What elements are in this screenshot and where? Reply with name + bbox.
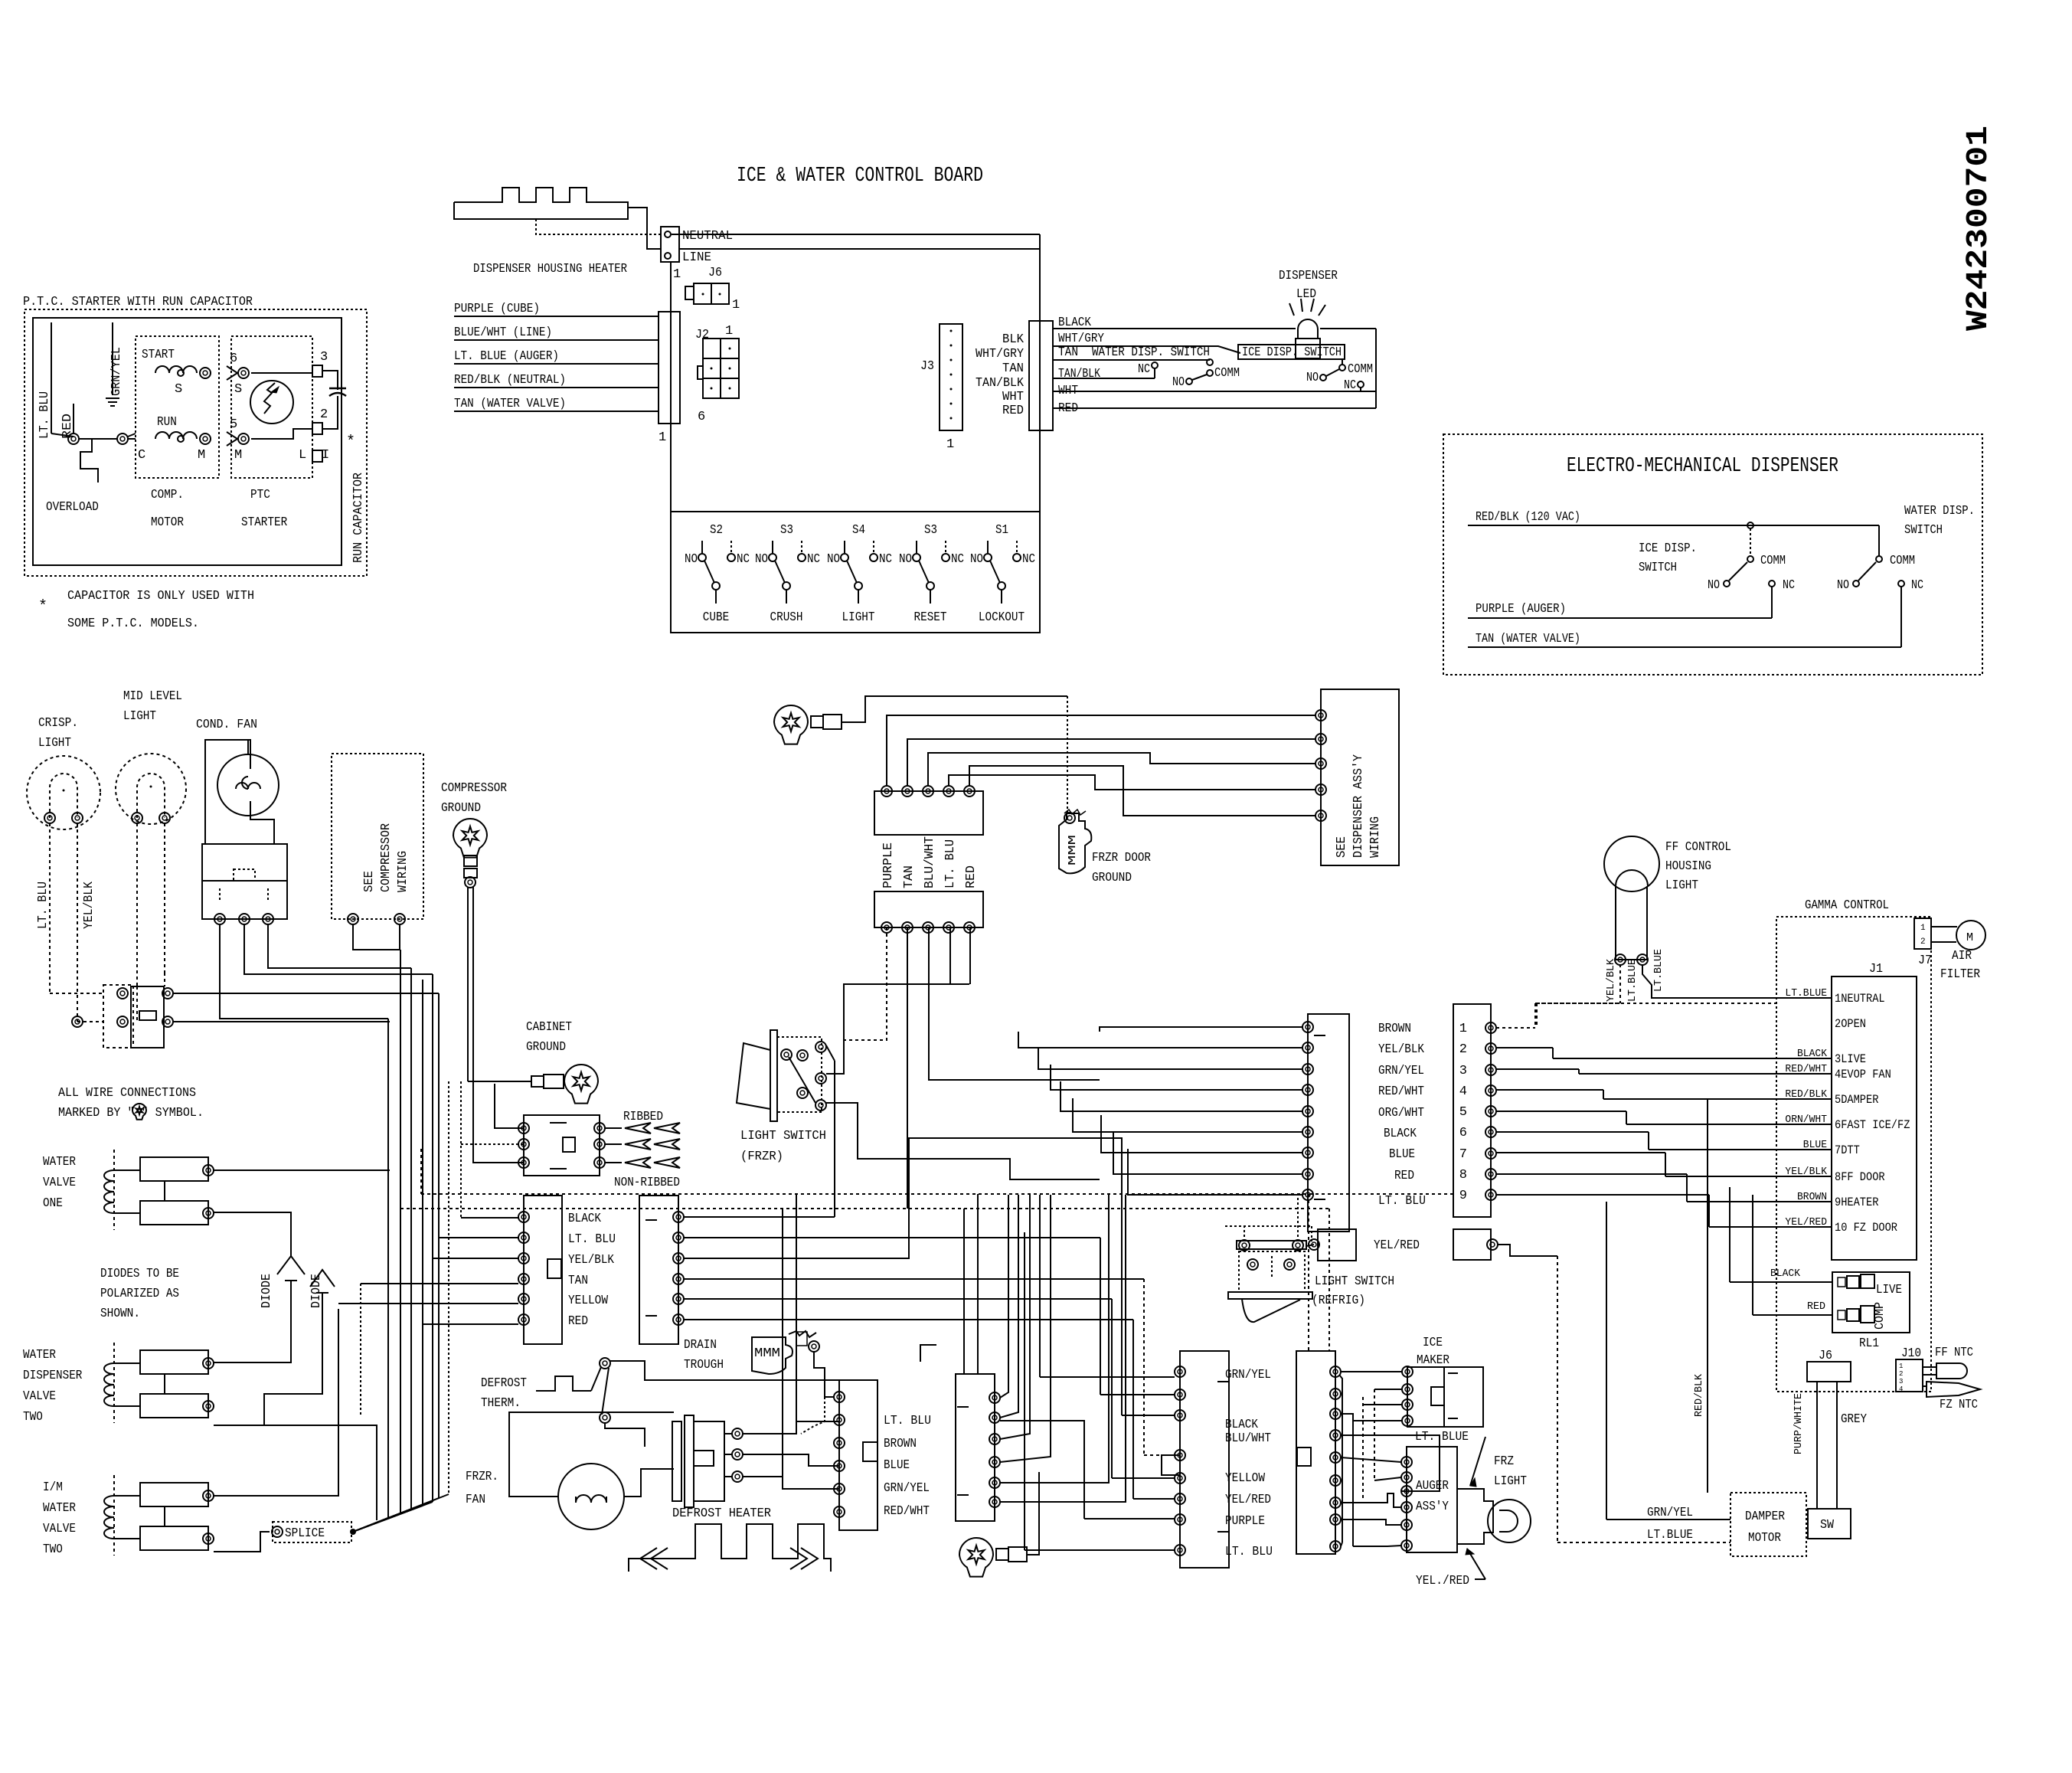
wire C2 tan right	[684, 1278, 1144, 1280]
svg-text:J7: J7	[1918, 954, 1932, 968]
light switch REFRIG plate	[1237, 1241, 1306, 1249]
svg-text:10 FZ DOOR: 10 FZ DOOR	[1835, 1221, 1897, 1235]
SW box	[1808, 1509, 1851, 1539]
svg-text:TAN/BLK: TAN/BLK	[1058, 367, 1101, 381]
svg-text:COMP: COMP	[1873, 1302, 1887, 1330]
splice fan wire 5	[353, 1502, 433, 1532]
switch S3 (CRUSH)	[755, 523, 820, 625]
svg-text:FRZR DOOR: FRZR DOOR	[1092, 851, 1151, 865]
wire RL1 black from lattice	[1730, 1281, 1776, 1283]
svg-text:1: 1	[1459, 1022, 1467, 1036]
wire block2 t5 down	[969, 927, 971, 984]
PTC outer dashed box	[25, 309, 367, 576]
compressor ground wire down	[467, 887, 469, 974]
svg-text:RED: RED	[1807, 1300, 1825, 1313]
svg-text:NC: NC	[1022, 552, 1035, 567]
svg-text:RED/BLK (120 VAC): RED/BLK (120 VAC)	[1476, 510, 1580, 525]
diode 1 symbol	[277, 1256, 305, 1274]
wire block1 t5 to dispenser box	[969, 766, 1315, 816]
svg-text:TAN: TAN	[902, 865, 917, 888]
svg-text:7: 7	[1459, 1147, 1467, 1162]
svg-text:YEL/BLK: YEL/BLK	[1605, 958, 1617, 1002]
air filter motor	[1956, 921, 1985, 950]
J1 pin 5 DAMPER	[1776, 1088, 1879, 1107]
svg-text:TWO: TWO	[23, 1410, 43, 1425]
splice junction	[350, 1529, 356, 1535]
J1 pin 9 HEATER	[1776, 1191, 1879, 1209]
svg-text:S: S	[175, 382, 182, 397]
svg-text:YEL/BLK: YEL/BLK	[568, 1253, 615, 1268]
MMM wire down	[814, 1352, 835, 1397]
svg-text:RED/WHT: RED/WHT	[884, 1504, 930, 1519]
svg-text:THERM.: THERM.	[481, 1396, 521, 1411]
svg-text:HOUSING: HOUSING	[1665, 859, 1711, 874]
svg-text:BLU/WHT: BLU/WHT	[1225, 1431, 1271, 1446]
1-9 connector C8 body	[1453, 1004, 1491, 1217]
wire run-to-terminal2	[251, 429, 312, 439]
neutral/line terminal block	[661, 227, 679, 262]
svg-text:RUN: RUN	[157, 415, 177, 430]
svg-text:I/M: I/M	[43, 1480, 63, 1495]
wire mid light 1 down	[136, 823, 138, 986]
svg-text:RED: RED	[1394, 1169, 1414, 1183]
wire bundle vertical 5	[432, 974, 433, 1502]
svg-text:TAN (WATER VALVE): TAN (WATER VALVE)	[1476, 632, 1580, 646]
svg-text:NEUTRAL: NEUTRAL	[682, 229, 733, 244]
svg-text:S1: S1	[995, 523, 1008, 538]
wire C2 lt.blu right	[684, 1237, 1100, 1238]
J1 pin 7 DTT	[1776, 1139, 1860, 1157]
svg-text:BLUE: BLUE	[884, 1458, 910, 1473]
wire C8 pin 5 to J1	[1496, 1111, 1776, 1124]
YEL/RED connector small box wires	[1306, 1245, 1314, 1246]
terminal block pins	[214, 914, 225, 924]
svg-text:DRAIN: DRAIN	[684, 1338, 717, 1353]
svg-text:AIR: AIR	[1952, 949, 1972, 963]
wire see-comp t2 to bundle	[399, 924, 400, 950]
J1 pin 10 FZ DOOR	[1776, 1216, 1897, 1235]
connector C6 body	[1296, 1351, 1335, 1554]
svg-text:DISPENSER HOUSING HEATER: DISPENSER HOUSING HEATER	[473, 262, 627, 276]
svg-text:START: START	[142, 348, 175, 362]
svg-text:J3: J3	[920, 359, 934, 374]
svg-text:NC: NC	[1911, 578, 1923, 593]
light switch FRZR body	[777, 1037, 822, 1112]
svg-text:LT.BLUE: LT.BLUE	[1647, 1528, 1693, 1542]
defrost therm wires	[610, 1361, 839, 1380]
splice fan wire 1	[353, 1517, 390, 1532]
svg-text:MMM: MMM	[1067, 835, 1079, 865]
svg-text:VALVE: VALVE	[43, 1176, 76, 1190]
light switch FRZR wedge	[737, 1043, 770, 1109]
wire block2 t2 down	[907, 927, 908, 1209]
svg-text:DISPENSER ASS'Y: DISPENSER ASS'Y	[1351, 754, 1366, 858]
svg-text:1: 1	[732, 298, 740, 312]
svg-text:RIBBED: RIBBED	[623, 1110, 663, 1124]
wire housing light yel/blk down	[1619, 964, 1621, 1003]
svg-text:GAMMA CONTROL: GAMMA CONTROL	[1805, 898, 1889, 913]
svg-text:COMM: COMM	[1348, 362, 1373, 377]
svg-text:LT. BLU: LT. BLU	[1225, 1545, 1273, 1559]
svg-text:NC: NC	[1783, 578, 1795, 593]
wire housing-light horizontal dashed	[1537, 1003, 1620, 1004]
svg-text:1: 1	[725, 324, 733, 339]
svg-text:W242300701: W242300701	[1962, 126, 1996, 331]
run capacitor symbol	[337, 373, 338, 390]
svg-text:6: 6	[230, 352, 237, 366]
svg-text:OVERLOAD: OVERLOAD	[46, 500, 99, 515]
C8 lower box	[1453, 1229, 1491, 1260]
svg-text:LIGHT: LIGHT	[1494, 1474, 1527, 1489]
wire lattice near freezer light switch	[826, 1045, 835, 1061]
svg-text:C: C	[138, 448, 145, 463]
wire C8 pin 3 to J1	[1496, 1069, 1776, 1074]
thermostat dashed box	[103, 985, 133, 1048]
svg-text:5: 5	[1459, 1105, 1467, 1120]
svg-text:WHT/GRY: WHT/GRY	[976, 347, 1024, 361]
wire motor t1 to bundle	[220, 924, 388, 1019]
wires defrost heater to C3	[743, 1421, 839, 1434]
svg-text:SWITCH: SWITCH	[1904, 523, 1943, 538]
svg-text:RED/BLK (NEUTRAL): RED/BLK (NEUTRAL)	[454, 373, 566, 388]
svg-text:RL1: RL1	[1859, 1336, 1879, 1351]
board outline	[671, 249, 1040, 633]
freezer door ground symbol	[1059, 813, 1091, 873]
door ground lug (top)	[774, 705, 808, 744]
svg-text:BROWN: BROWN	[1378, 1022, 1411, 1036]
svg-text:DEFROST: DEFROST	[481, 1376, 527, 1391]
svg-text:PURPLE: PURPLE	[881, 842, 896, 888]
overload switch wires	[68, 433, 79, 444]
wire C2 yel/blk right	[684, 1138, 1122, 1258]
svg-text:LOCKOUT: LOCKOUT	[979, 610, 1025, 625]
wire C8 pin 8 to J1	[1496, 1174, 1776, 1202]
J1 pin 6 FAST ICE/FZ	[1776, 1114, 1910, 1132]
svg-text:NC: NC	[1344, 378, 1356, 393]
svg-text:RED: RED	[568, 1314, 588, 1329]
svg-text:WATER: WATER	[23, 1348, 56, 1362]
long dashed wire 1	[421, 1193, 1453, 1195]
wires into C5 from left	[1040, 1376, 1175, 1378]
svg-text:(FRZR): (FRZR)	[740, 1150, 783, 1164]
svg-text:M: M	[234, 448, 242, 463]
svg-text:ICE & WATER CONTROL BOARD: ICE & WATER CONTROL BOARD	[737, 165, 983, 188]
svg-text:GROUND: GROUND	[441, 801, 481, 816]
crisp light bulb	[27, 756, 100, 829]
svg-text:8: 8	[1459, 1168, 1467, 1183]
wire valve2 bottom to splice	[214, 1425, 377, 1520]
svg-text:6: 6	[698, 410, 705, 424]
svg-text:BLU/WHT: BLU/WHT	[923, 836, 937, 888]
svg-text:TROUGH: TROUGH	[684, 1358, 724, 1372]
compressor ground lug	[453, 819, 487, 858]
input connector strip	[659, 312, 680, 424]
svg-text:1: 1	[1899, 1362, 1903, 1370]
J1 pin 8 FF DOOR	[1776, 1166, 1885, 1184]
svg-text:M: M	[1966, 931, 1973, 944]
svg-text:ICE DISP.: ICE DISP.	[1639, 541, 1697, 556]
svg-text:DISPENSER: DISPENSER	[1279, 269, 1338, 283]
svg-text:*: *	[38, 598, 47, 616]
svg-text:LT. BLU: LT. BLU	[38, 391, 52, 439]
housing light terminals	[1615, 954, 1626, 965]
wire valve1 bottom to diode1	[214, 1212, 291, 1256]
C6 terminals	[1330, 1366, 1341, 1377]
svg-text:DAMPER: DAMPER	[1745, 1510, 1785, 1524]
dispenser LED symbol	[1298, 319, 1318, 339]
svg-text:LIGHT: LIGHT	[1665, 878, 1698, 893]
svg-text:NO: NO	[1306, 371, 1319, 385]
svg-text:6: 6	[1459, 1126, 1467, 1140]
svg-text:NO: NO	[899, 552, 912, 567]
PTC starter terminal M	[238, 433, 249, 444]
svg-text:LT.BLUE: LT.BLUE	[1652, 949, 1665, 992]
svg-text:GROUND: GROUND	[1092, 871, 1132, 885]
svg-text:DEFROST HEATER: DEFROST HEATER	[672, 1506, 771, 1521]
svg-text:COND. FAN: COND. FAN	[196, 718, 257, 732]
wire valve1-top bundle join	[389, 1169, 391, 1171]
svg-text:SEE: SEE	[362, 871, 377, 892]
mid ground wire	[1027, 1472, 1039, 1555]
svg-text:YEL/RED: YEL/RED	[1374, 1238, 1420, 1253]
wire bundle vertical 6	[438, 993, 440, 1498]
connector C5 body	[1180, 1351, 1229, 1568]
output connector strip at board right edge	[1029, 321, 1053, 430]
svg-text:4EVOP FAN: 4EVOP FAN	[1835, 1068, 1891, 1081]
diode 2 symbol	[310, 1270, 335, 1287]
wire LT.BLUE to damper	[1557, 1542, 1730, 1543]
C4 terminals	[989, 1392, 1000, 1403]
C3 terminals	[834, 1392, 845, 1402]
svg-text:MOTOR: MOTOR	[151, 515, 184, 530]
svg-text:4: 4	[1899, 1385, 1903, 1393]
cabinet ground vertical	[460, 1081, 462, 1218]
ice maker terminals	[1402, 1366, 1413, 1377]
connector J1 box	[1832, 976, 1917, 1260]
run winding coil	[155, 432, 197, 439]
svg-text:PURP/WHITE: PURP/WHITE	[1793, 1393, 1805, 1454]
C1 terminals	[518, 1212, 529, 1222]
svg-text:NO: NO	[1837, 578, 1849, 593]
svg-text:LT. BLU: LT. BLU	[1378, 1194, 1426, 1209]
svg-text:YEL./RED: YEL./RED	[1416, 1574, 1469, 1588]
wires into C1 from left	[461, 1217, 518, 1219]
svg-text:7DTT: 7DTT	[1835, 1143, 1860, 1157]
svg-text:MID LEVEL: MID LEVEL	[123, 689, 182, 704]
wire i/m valve bottom to splice	[214, 1532, 270, 1552]
connector block2 (dispenser harness bottom)	[874, 891, 983, 927]
freezer fan circle	[558, 1464, 624, 1529]
PTC disc symbol	[250, 381, 293, 424]
svg-text:BLUE: BLUE	[1389, 1147, 1415, 1162]
gamma control box	[1776, 917, 1931, 1392]
svg-text:LINE: LINE	[682, 250, 711, 265]
svg-text:2OPEN: 2OPEN	[1835, 1017, 1866, 1031]
svg-text:NC: NC	[737, 552, 750, 567]
compressor motor box	[136, 336, 219, 478]
svg-text:NO: NO	[970, 552, 983, 567]
wire feed C6 vertical b	[1328, 1209, 1330, 1351]
svg-text:LT. BLUE: LT. BLUE	[1415, 1430, 1469, 1444]
J1 pin 1 NEUTRAL	[1776, 987, 1885, 1006]
svg-text:ICE DISP. SWITCH: ICE DISP. SWITCH	[1242, 345, 1342, 360]
wire C8 pin 6 to J1	[1496, 1132, 1776, 1150]
svg-text:FZ NTC: FZ NTC	[1940, 1398, 1978, 1412]
drain trough heater MMM symbol	[752, 1337, 793, 1374]
svg-text:COMP.: COMP.	[151, 488, 184, 502]
C7 terminals	[1302, 1022, 1313, 1032]
wire feed C4 vertical 1	[963, 1209, 965, 1373]
wire motor t2 to bundle	[244, 924, 433, 974]
PTC inner box	[33, 318, 342, 565]
i/m water valve two	[140, 1483, 208, 1506]
svg-text:S: S	[234, 382, 242, 397]
svg-text:LIGHT SWITCH: LIGHT SWITCH	[740, 1129, 826, 1143]
svg-text:GRN/YEL: GRN/YEL	[1378, 1064, 1424, 1078]
wire bundle vertical 3	[410, 968, 412, 1510]
svg-text:STARTER: STARTER	[241, 515, 287, 530]
wire GRN/YEL to damper	[1606, 1519, 1730, 1520]
wire thermostat out 1	[173, 993, 439, 994]
svg-text:LIVE: LIVE	[1876, 1283, 1902, 1297]
wire mid light 2 down	[164, 823, 165, 973]
relay RL1 box	[1832, 1272, 1910, 1333]
svg-text:1: 1	[946, 437, 954, 452]
compressor motor terminal block	[202, 844, 287, 919]
defrost heater arrows	[651, 1548, 668, 1569]
ground symbol GRN/YEL	[112, 322, 113, 395]
svg-text:NC: NC	[951, 552, 964, 567]
dispenser housing heater element	[454, 202, 661, 249]
svg-text:(REFRIG): (REFRIG)	[1312, 1294, 1365, 1308]
svg-text:MARKED BY " " SYMBOL.: MARKED BY " " SYMBOL.	[58, 1106, 204, 1120]
svg-text:WHT/GRY: WHT/GRY	[1058, 332, 1104, 346]
svg-text:*: *	[346, 433, 355, 451]
motor run terminal	[200, 433, 211, 444]
svg-text:YELLOW: YELLOW	[1225, 1471, 1266, 1486]
svg-text:CRUSH: CRUSH	[770, 610, 803, 625]
PTC starter box	[231, 336, 312, 478]
svg-text:LT. BLUE (AUGER): LT. BLUE (AUGER)	[454, 349, 559, 364]
svg-text:FF CONTROL: FF CONTROL	[1665, 840, 1731, 855]
svg-text:CRISP.: CRISP.	[38, 716, 78, 731]
RL1 comp contact symbol	[1838, 1310, 1845, 1320]
connector J6 small box	[685, 286, 694, 299]
condenser fan motor circle	[217, 754, 279, 816]
svg-text:RED/BLK: RED/BLK	[1693, 1373, 1705, 1417]
svg-text:ICE: ICE	[1423, 1336, 1443, 1350]
svg-text:GRN/YEL: GRN/YEL	[109, 347, 124, 396]
svg-text:FILTER: FILTER	[1940, 967, 1980, 982]
svg-text:3: 3	[1899, 1378, 1903, 1385]
switch S1 (LOCKOUT)	[970, 523, 1035, 625]
svg-text:DIODE: DIODE	[260, 1274, 274, 1308]
svg-text:S3: S3	[780, 523, 793, 538]
wire bundle vertical 2	[400, 950, 401, 1513]
condenser fan feed wire	[247, 740, 249, 754]
wire bundle vertical 1	[387, 1019, 389, 1517]
wire block2 t3 down	[929, 927, 1100, 1080]
wire block2 t4 down	[949, 927, 951, 984]
SEE COMPRESSOR WIRING pins	[348, 914, 358, 924]
svg-text:SHOWN.: SHOWN.	[100, 1307, 140, 1321]
svg-text:BLK: BLK	[1002, 332, 1025, 347]
ice disp switch symbol	[1339, 365, 1345, 371]
ribbed/non-ribbed connector	[524, 1115, 600, 1176]
svg-text:LT. BLU: LT. BLU	[568, 1232, 616, 1247]
FF control housing light bulb	[1604, 836, 1659, 891]
connector C7 (BROWN..LT.BLU) body	[1308, 1014, 1349, 1232]
water valve one	[140, 1157, 208, 1181]
svg-text:S2: S2	[710, 523, 723, 538]
svg-text:6FAST ICE/FZ: 6FAST ICE/FZ	[1835, 1118, 1910, 1132]
svg-text:WATER DISP. SWITCH: WATER DISP. SWITCH	[1092, 345, 1210, 360]
defrost therm symbol	[536, 1376, 591, 1391]
SEE COMPRESSOR WIRING box	[332, 754, 423, 919]
ice disp switch (EM) NO	[1724, 581, 1730, 587]
svg-text:5DAMPER: 5DAMPER	[1835, 1093, 1879, 1107]
auger assy box	[1407, 1447, 1457, 1552]
switch S2 (CUBE)	[685, 523, 750, 625]
water dispenser valve two	[140, 1350, 208, 1374]
svg-text:ONE: ONE	[43, 1196, 63, 1211]
svg-text:4: 4	[1459, 1084, 1467, 1099]
svg-text:ELECTRO-MECHANICAL DISPENSER: ELECTRO-MECHANICAL DISPENSER	[1567, 455, 1838, 478]
wire i/m valve top to yellow	[214, 1309, 338, 1496]
light switch FRZR plate	[770, 1030, 777, 1121]
wire C8 pin 2 to J1	[1496, 1048, 1776, 1058]
ice disp switch (EM) common stem	[1750, 528, 1751, 556]
svg-text:J6: J6	[708, 266, 722, 280]
wire block1 t1 to dispenser box	[887, 715, 1315, 786]
svg-text:TAN (WATER VALVE): TAN (WATER VALVE)	[454, 397, 566, 411]
wire YEL/RED box2 to LT.BLUE damper line	[1498, 1245, 1557, 1256]
FRZ light circle	[1488, 1500, 1531, 1542]
svg-text:GREY: GREY	[1841, 1412, 1867, 1427]
svg-text:NO: NO	[1708, 578, 1720, 593]
svg-text:NO: NO	[1172, 375, 1185, 390]
FZ NTC sensor	[1927, 1382, 1980, 1397]
svg-text:PTC: PTC	[250, 488, 270, 502]
wire C2 yellow right	[684, 1298, 1112, 1300]
svg-text:WATER DISP.: WATER DISP.	[1904, 504, 1975, 518]
damper motor box	[1730, 1493, 1806, 1556]
wire motor line to PTC box	[128, 438, 136, 440]
svg-text:CUBE: CUBE	[703, 610, 729, 625]
wire C2 black up-right	[684, 1216, 835, 1218]
svg-text:POLARIZED AS: POLARIZED AS	[100, 1287, 179, 1301]
wires C6 to ice maker / auger	[1341, 1371, 1402, 1372]
wire see-comp t1 to bundle	[353, 924, 400, 950]
thermostat terminals	[117, 988, 128, 999]
splice fan wire 2	[353, 1513, 400, 1532]
svg-text:CAPACITOR IS ONLY USED WITH: CAPACITOR IS ONLY USED WITH	[67, 589, 254, 604]
svg-text:3: 3	[1459, 1064, 1467, 1078]
light switch REFRIG wedge	[1242, 1299, 1300, 1322]
svg-text:LT. BLU: LT. BLU	[943, 839, 958, 888]
wire thermostat out 2	[173, 1021, 390, 1022]
wire C4 t2 long to C5	[1000, 1421, 1084, 1519]
svg-text:SOME P.T.C. MODELS.: SOME P.T.C. MODELS.	[67, 617, 199, 631]
freezer fan wires	[509, 1412, 674, 1497]
wire motor t3 to bundle	[268, 924, 411, 968]
svg-text:S3: S3	[924, 523, 937, 538]
PTC starter terminal S	[238, 368, 249, 378]
wire dashed into light switch refrig	[1225, 1225, 1312, 1227]
svg-text:RESET: RESET	[914, 610, 947, 625]
svg-text:L: L	[299, 448, 306, 463]
svg-text:PURPLE (CUBE): PURPLE (CUBE)	[454, 302, 540, 316]
